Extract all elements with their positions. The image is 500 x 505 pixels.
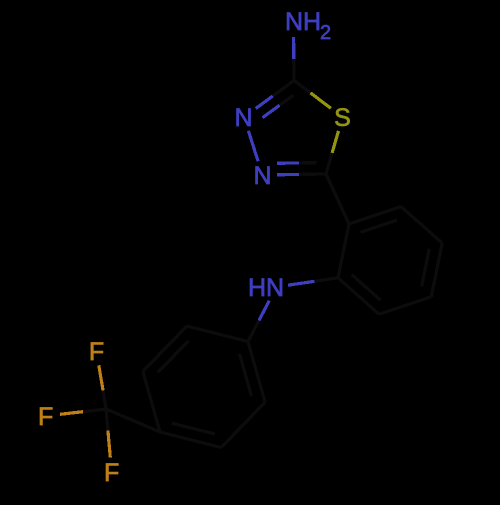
svg-text:F: F [38, 403, 53, 431]
svg-text:F: F [89, 338, 104, 366]
svg-text:S: S [334, 104, 351, 132]
svg-text:N: N [253, 162, 271, 190]
svg-text:2: 2 [320, 22, 331, 44]
svg-text:HN: HN [248, 274, 284, 302]
svg-text:NH: NH [285, 8, 321, 36]
svg-text:F: F [104, 459, 119, 487]
svg-text:N: N [234, 104, 252, 132]
